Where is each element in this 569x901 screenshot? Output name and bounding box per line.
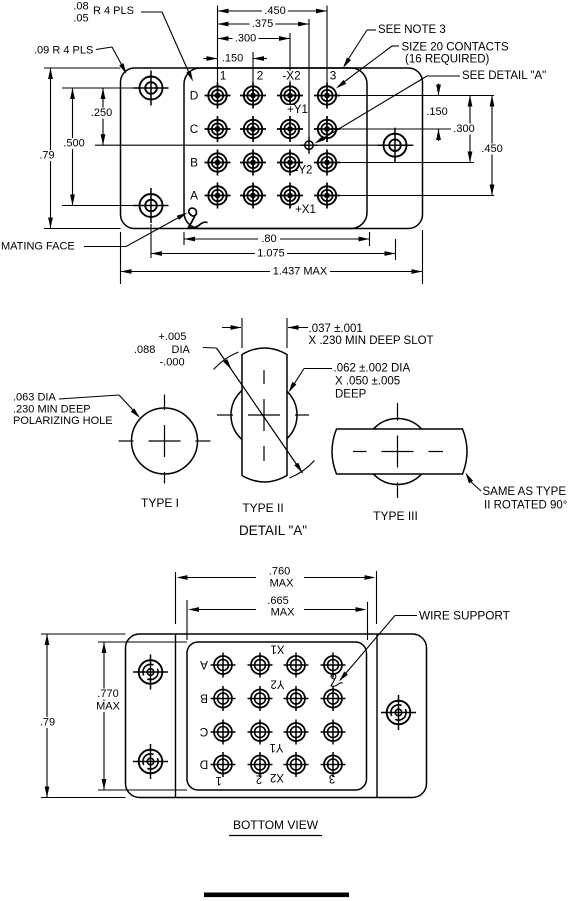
top view: mounting hole right: [378, 128, 413, 163]
svg-text:1: 1: [215, 774, 221, 786]
svg-text:Y1: Y1: [269, 741, 283, 753]
svg-text:TYPE III: TYPE III: [373, 509, 418, 523]
svg-text:.250: .250: [91, 107, 112, 119]
dimension .760 MAX: [183, 577, 256, 579]
contact D4 (bottom view): [321, 752, 346, 777]
svg-text:.150: .150: [222, 53, 243, 65]
svg-text:.450: .450: [481, 143, 502, 155]
svg-text:DEEP: DEEP: [335, 389, 367, 401]
svg-text:3: 3: [329, 772, 335, 784]
svg-text:(16 REQUIRED): (16 REQUIRED): [405, 54, 490, 66]
type II centerline horizontal: [217, 414, 233, 416]
svg-text:Y2: Y2: [270, 678, 284, 690]
leader MATING FACE: [84, 246, 126, 248]
contact A2 (top view): [240, 183, 266, 209]
type II rotation arc upper: [214, 352, 239, 370]
bottom view: mounting hole right: [381, 695, 416, 730]
bottom extension line hole centerline right: [395, 239, 397, 260]
svg-text:D: D: [200, 758, 209, 772]
dimension 1.437 MAX: [121, 271, 423, 273]
svg-text:.05: .05: [73, 13, 88, 25]
svg-text:A: A: [200, 658, 208, 672]
extension lines .770 MAX: [98, 641, 187, 643]
svg-text:MAX: MAX: [96, 701, 121, 713]
bottom view: mounting hole upper left: [133, 655, 168, 690]
label column -X2: [280, 71, 303, 81]
contact A1 (bottom view): [211, 653, 236, 678]
contact B4 (bottom view): [321, 686, 346, 711]
svg-text:II ROTATED 90°: II ROTATED 90°: [484, 500, 567, 512]
bottom view: connector shell outline: [126, 634, 427, 798]
svg-text:.230 MIN DEEP: .230 MIN DEEP: [13, 404, 91, 416]
top view: column extension line -X2: [289, 33, 291, 83]
svg-text:DIA: DIA: [172, 344, 191, 356]
svg-text:1.437 MAX: 1.437 MAX: [273, 266, 328, 278]
row extension line B (right): [340, 162, 474, 164]
svg-text:.08: .08: [73, 1, 88, 13]
svg-text:-X2: -X2: [282, 69, 300, 83]
svg-text:.300: .300: [235, 33, 256, 45]
svg-text:2: 2: [256, 773, 262, 785]
contact B2 (top view): [240, 150, 266, 176]
svg-text:.150: .150: [426, 106, 447, 118]
svg-text:.088: .088: [134, 344, 155, 356]
svg-text:X .230 MIN DEEP SLOT: X .230 MIN DEEP SLOT: [309, 335, 434, 347]
bottom extension line hole centerline left: [150, 224, 152, 258]
svg-text:SIZE 20 CONTACTS: SIZE 20 CONTACTS: [402, 42, 509, 54]
top view: mounting hole lower left: [134, 188, 169, 223]
row extension line D (right): [340, 95, 494, 97]
svg-text:.063 DIA: .063 DIA: [13, 392, 56, 404]
svg-text:X1: X1: [270, 643, 284, 655]
bottom view: body edge left: [175, 634, 177, 798]
detail A type III circle: [365, 419, 431, 485]
row extension line A (right): [340, 195, 494, 197]
bottom dim extension line body left: [175, 572, 177, 624]
contact A2 (bottom view): [248, 653, 273, 678]
bottom dim extension line insulator right: [367, 602, 369, 640]
contact D1 (bottom view): [211, 752, 236, 777]
svg-text:.062 ±.002 DIA: .062 ±.002 DIA: [334, 363, 411, 375]
contact C2 (top view): [240, 116, 266, 142]
svg-text:3: 3: [330, 69, 337, 83]
contact D2 (top view): [240, 83, 266, 109]
svg-text:.300: .300: [453, 123, 474, 135]
bottom extension line inset left: [183, 232, 185, 245]
svg-text:BOTTOM VIEW: BOTTOM VIEW: [233, 818, 319, 832]
svg-text:TYPE I: TYPE I: [141, 496, 179, 510]
svg-text:2: 2: [257, 69, 264, 83]
row extension line C (right): [340, 128, 474, 130]
contact A4 (top view): [314, 183, 340, 209]
type II slot outline: [242, 348, 287, 482]
mating face squiggle symbol: [189, 208, 208, 228]
contact C1 (top view): [205, 116, 231, 142]
svg-text:WIRE SUPPORT: WIRE SUPPORT: [419, 609, 510, 623]
leader .08/.05 R 4 PLS: [141, 11, 162, 13]
contact D3 (top view): [277, 83, 303, 109]
dimension .250 (left): [102, 88, 104, 145]
contact B3 (bottom view): [284, 686, 309, 711]
svg-text:+Y1: +Y1: [287, 104, 308, 116]
top view: polarizing centerline Y axis: [308, 19, 310, 154]
type II slot width extension lines: [241, 318, 243, 348]
svg-text:MAX: MAX: [271, 607, 296, 619]
dimension .79 (bottom view): [46, 634, 48, 798]
svg-text:.450: .450: [264, 5, 285, 17]
leader SAME AS TYPE II: [471, 482, 481, 491]
leader WIRE SUPPORT: [395, 615, 417, 617]
bottom view: mounting hole lower left: [133, 744, 168, 779]
svg-text:+.005: +.005: [159, 331, 187, 343]
bottom extension line inset right: [369, 232, 371, 246]
type I centerline vertical: [164, 395, 166, 411]
bottom dim extension line body right: [376, 571, 378, 624]
svg-text:SEE DETAIL "A": SEE DETAIL "A": [462, 70, 546, 82]
left extension line lower hole: [62, 205, 134, 207]
contact C1 (bottom view): [211, 720, 236, 745]
contact B4 (top view): [314, 150, 340, 176]
top view: column extension line 2: [252, 52, 254, 83]
svg-text:X2: X2: [270, 771, 284, 783]
leader SEE NOTE 3: [367, 29, 376, 31]
contact B2 (bottom view): [248, 686, 273, 711]
contact C3 (top view): [277, 116, 303, 142]
contact C4 (top view): [314, 116, 340, 142]
svg-text:.665: .665: [267, 595, 288, 607]
contact B1 (top view): [205, 150, 231, 176]
left extension line bottom edge: [44, 228, 121, 230]
dimension .300 (top): [218, 38, 291, 40]
contact B3 (top view): [277, 150, 303, 176]
leader SEE DETAIL "A": [427, 75, 460, 77]
detail A type I circle: [132, 408, 198, 474]
svg-text:R 4 PLS: R 4 PLS: [93, 5, 134, 17]
type II centerline vertical: [263, 370, 265, 384]
svg-text:SEE NOTE 3: SEE NOTE 3: [378, 24, 446, 36]
type II rotation arc lower: [290, 461, 315, 479]
dimension arrows slot width .037: [222, 327, 241, 329]
top view: mating face inset outline: [184, 68, 367, 229]
dimension 1.075: [151, 253, 396, 255]
svg-text:C: C: [190, 122, 199, 136]
type I centerline horizontal: [119, 440, 134, 442]
wire support squiggle: [331, 674, 343, 686]
svg-text:.500: .500: [63, 138, 84, 150]
svg-text:-.000: -.000: [160, 357, 185, 369]
top view: column extension line 3: [326, 6, 328, 84]
contact C2 (bottom view): [248, 720, 273, 745]
type III centerline horizontal: [353, 451, 367, 453]
contact C4 (bottom view): [321, 720, 346, 745]
svg-text:1.075: 1.075: [257, 248, 285, 260]
bottom view: insulator outline: [187, 642, 367, 790]
extension lines .79 (bottom view): [41, 633, 126, 635]
svg-text:SAME AS TYPE: SAME AS TYPE: [483, 486, 567, 498]
svg-text:D: D: [190, 89, 199, 103]
svg-text:.80: .80: [261, 233, 276, 245]
dimension .665 MAX: [194, 609, 256, 611]
contact B1 (bottom view): [211, 686, 236, 711]
dimension .300 (right): [469, 96, 471, 163]
page footer bar: [204, 893, 349, 898]
contact A3 (top view): [277, 183, 303, 209]
svg-text:.79: .79: [39, 150, 54, 162]
leader .063 DIA: [59, 395, 119, 399]
svg-text:A: A: [190, 189, 198, 203]
contact A1 (top view): [205, 183, 231, 209]
detail A type II circle: [231, 382, 297, 448]
type III centerline vertical: [397, 403, 399, 421]
dimension .80: [184, 238, 370, 240]
dimension .375 (top): [218, 23, 310, 25]
dimension .500 (left): [72, 88, 74, 206]
svg-text:.760: .760: [269, 566, 290, 578]
svg-text:B: B: [190, 156, 198, 170]
contact A4 (bottom view): [321, 653, 346, 678]
type III slot outline: [332, 429, 467, 474]
svg-text:.09 R 4 PLS: .09 R 4 PLS: [34, 45, 93, 57]
dimension .150 (top): [204, 58, 218, 60]
label +Y1: [287, 105, 308, 115]
dimension .150 (right): [438, 84, 440, 96]
svg-text:TYPE II: TYPE II: [242, 501, 283, 515]
leader .09 R 4 PLS: [96, 47, 112, 50]
contact A3 (bottom view): [284, 653, 309, 678]
svg-text:B: B: [200, 692, 208, 706]
leader SIZE 20 CONTACTS: [392, 45, 399, 47]
svg-text:+X1: +X1: [295, 204, 316, 216]
leader .062 DIA: [304, 368, 332, 370]
svg-text:.79: .79: [40, 716, 55, 728]
bottom dim extension line insulator left: [186, 600, 188, 640]
left extension line upper hole: [62, 87, 134, 89]
dimension .450 (top): [218, 10, 328, 12]
contact C3 (bottom view): [284, 720, 309, 745]
svg-text:X .050 ±.005: X .050 ±.005: [335, 376, 400, 388]
svg-text:C: C: [199, 725, 208, 739]
svg-text:DETAIL "A": DETAIL "A": [239, 523, 307, 538]
left extension line top edge: [44, 67, 121, 69]
dimension .450 (right): [491, 96, 493, 196]
bottom extension line shell left: [120, 232, 122, 284]
bottom extension line shell right: [422, 230, 424, 284]
svg-text:.037 ±.001: .037 ±.001: [309, 323, 363, 335]
top view: connector shell outline: [121, 68, 423, 229]
svg-text:1: 1: [220, 69, 227, 83]
leader .088 DIA and slot axis diagonal: [203, 347, 217, 350]
bottom view: body edge right: [376, 634, 378, 798]
svg-text:POLARIZING HOLE: POLARIZING HOLE: [13, 415, 113, 427]
svg-text:MAX: MAX: [270, 578, 295, 590]
contact D1 (top view): [205, 83, 231, 109]
contact D2 (bottom view): [248, 752, 273, 777]
top view: column extension line 1: [217, 6, 219, 84]
dimension .79 (left): [50, 68, 52, 229]
svg-text:MATING FACE: MATING FACE: [1, 241, 75, 253]
contact D4 (top view): [314, 83, 340, 109]
dimension .770 MAX: [103, 642, 105, 790]
svg-text:-Y2: -Y2: [295, 165, 313, 177]
svg-text:.770: .770: [97, 688, 118, 700]
top view: polarizing post center: [301, 137, 318, 154]
svg-text:.375: .375: [252, 18, 273, 30]
top view: mounting hole upper left: [134, 71, 169, 106]
contact D3 (bottom view): [284, 752, 309, 777]
top view: horizontal centerline: [95, 144, 414, 146]
